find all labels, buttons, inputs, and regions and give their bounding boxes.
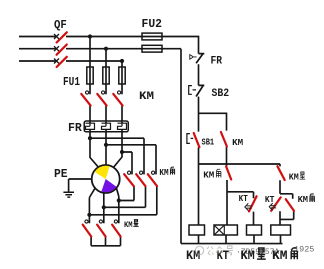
svg-text:KM: KM — [139, 91, 154, 103]
svg-text:QF: QF — [54, 18, 67, 32]
svg-text:KM: KM — [232, 138, 243, 148]
svg-text:KM: KM — [203, 171, 214, 181]
svg-text:·ZD59157A: ·ZD59157A — [236, 248, 279, 257]
svg-text:KM: KM — [289, 173, 299, 183]
svg-text:1925: 1925 — [294, 245, 314, 255]
svg-text:KM: KM — [159, 168, 168, 178]
svg-text:KM: KM — [124, 220, 133, 230]
svg-text:KT: KT — [239, 194, 249, 204]
svg-text:FR: FR — [68, 121, 83, 135]
svg-text:KM: KM — [298, 195, 308, 205]
svg-text:FU2: FU2 — [142, 17, 163, 31]
svg-text:KM: KM — [186, 248, 200, 263]
svg-text:KT: KT — [265, 195, 275, 205]
svg-text:FU1: FU1 — [63, 75, 80, 89]
svg-text:FR: FR — [211, 56, 223, 68]
svg-text:SB1: SB1 — [202, 137, 215, 147]
svg-text:SB2: SB2 — [212, 88, 230, 100]
svg-text:PE: PE — [54, 167, 68, 181]
